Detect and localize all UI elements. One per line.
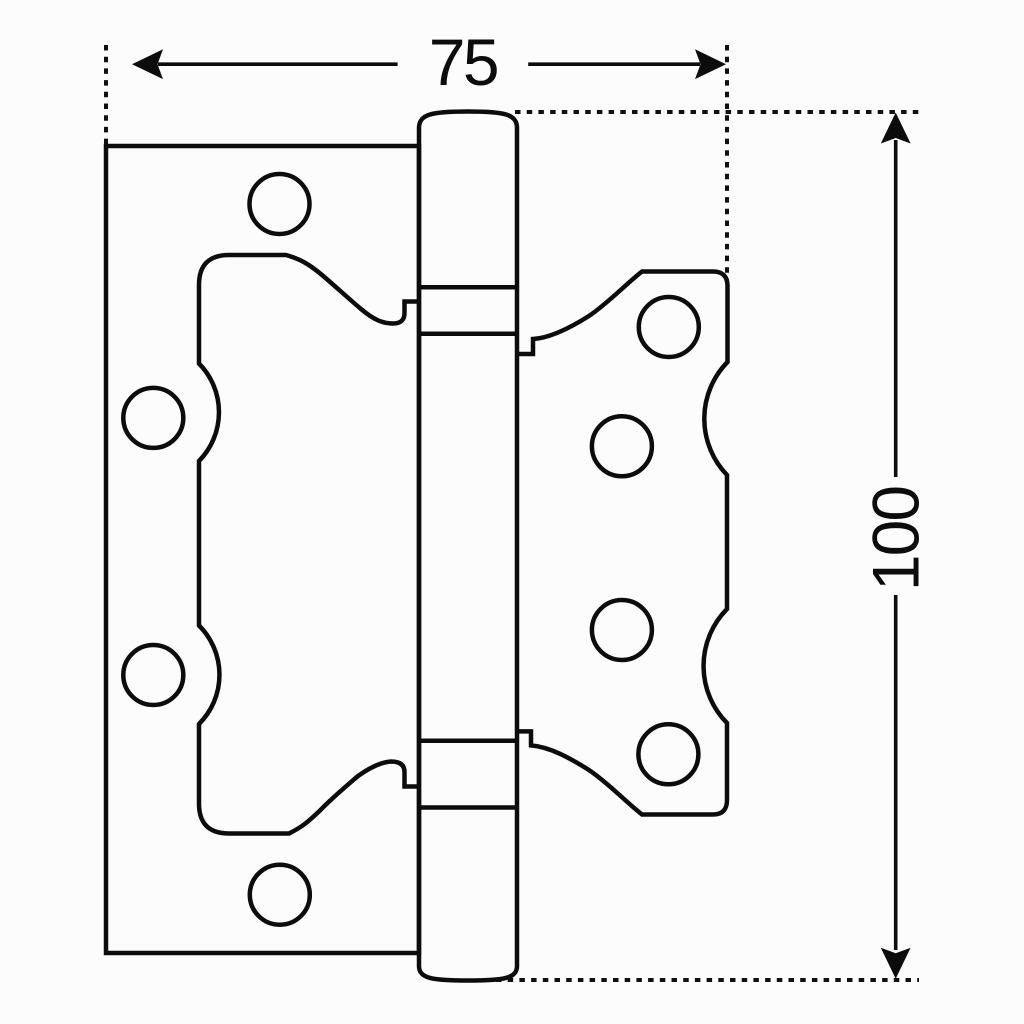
svg-text:75: 75 [429, 25, 497, 99]
svg-text:100: 100 [859, 487, 933, 591]
